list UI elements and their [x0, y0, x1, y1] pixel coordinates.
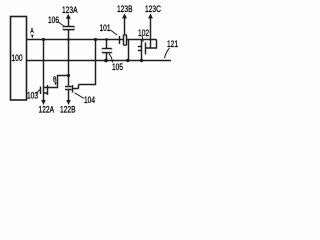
leader 103 — [36, 90, 40, 94]
svg-text:121: 121 — [167, 39, 178, 49]
junction node B dot — [67, 74, 70, 77]
svg-text:A: A — [30, 27, 34, 35]
svg-text:123C: 123C — [145, 4, 161, 14]
junction dot on line 1 — [94, 38, 97, 41]
wire transistor 103 to terminal 122A — [43, 96, 45, 101]
leader 121 — [165, 48, 170, 58]
arrowhead terminal 123C — [148, 13, 153, 18]
wire terminal 123B to transistor gate — [124, 18, 126, 35]
svg-text:B: B — [53, 76, 57, 84]
wire transistor 123B drain down to gate line 2 — [128, 40, 130, 61]
svg-text:103: 103 — [27, 90, 38, 100]
leader 106 — [58, 22, 64, 27]
junction capacitor 105 on line 1 — [105, 38, 108, 41]
junction capacitor 106 on line 1 — [67, 38, 70, 41]
arrowhead terminal 122A — [41, 100, 46, 105]
wire capacitor 106 column down through both gate lines — [68, 30, 70, 86]
leader 105 — [109, 54, 113, 63]
leader 104 — [75, 93, 84, 99]
wire transistor 104 to terminal 122B — [68, 90, 70, 100]
wire gate line 2 — [27, 60, 172, 62]
wire transistor 102 bottom lead — [141, 54, 143, 61]
svg-text:100: 100 — [12, 53, 23, 63]
wire capacitor 105 top lead — [106, 40, 108, 49]
wire terminal 123C down to node — [150, 18, 152, 48]
leader 102 — [142, 36, 143, 42]
wire node A column down to transistor 103 — [43, 40, 45, 85]
capacitor 105 bottom plate — [102, 51, 111, 54]
arrowhead terminal 122B — [66, 100, 71, 105]
transistor 104 body — [65, 85, 79, 93]
capacitor 105 top plate — [102, 48, 111, 51]
wire capacitor 105 bottom lead — [106, 53, 108, 61]
leader 101 — [111, 30, 118, 35]
arrowhead node A — [31, 35, 34, 39]
svg-text:102: 102 — [138, 28, 149, 38]
driver block 100 — [11, 17, 27, 101]
transistor 123B body — [120, 35, 129, 45]
wire transistor 102 top lead — [141, 40, 143, 44]
junction transistor 102 on line 2 — [140, 59, 143, 62]
svg-text:106: 106 — [48, 15, 59, 25]
arrowhead node B — [54, 82, 57, 85]
junction dot on line 2 — [126, 59, 129, 62]
wire from gate line 1 down to elbow of transistor 104 drain — [79, 40, 96, 89]
wire terminal 123A to capacitor 106 — [68, 18, 70, 26]
svg-text:123B: 123B — [117, 4, 133, 14]
wire elbow node B connecting transistor 103 drain — [50, 76, 69, 88]
capacitor 106 bottom plate — [63, 28, 74, 31]
transistor 103 body — [41, 85, 51, 96]
capacitor 106 top plate — [63, 26, 74, 29]
arrowhead terminal 123B — [122, 13, 127, 18]
svg-text:104: 104 — [84, 95, 95, 105]
svg-text:105: 105 — [112, 62, 123, 72]
junction node A dot — [42, 38, 45, 41]
junction dot line2 column — [67, 59, 70, 62]
svg-text:123A: 123A — [62, 5, 78, 15]
arrowhead terminal 123A — [66, 14, 71, 19]
svg-text:122B: 122B — [60, 104, 76, 114]
svg-text:101: 101 — [99, 23, 110, 33]
wire gate line 1 — [27, 40, 157, 49]
junction capacitor 105 on line 2 — [104, 59, 108, 63]
svg-text:122A: 122A — [39, 104, 55, 114]
transistor 102 body — [138, 43, 151, 55]
